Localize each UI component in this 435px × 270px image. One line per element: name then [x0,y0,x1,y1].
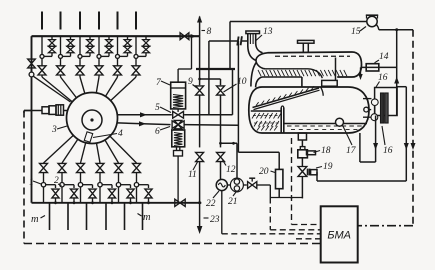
svg-text:5: 5 [155,103,160,113]
svg-text:1: 1 [29,178,34,188]
svg-text:15: 15 [351,27,361,37]
svg-text:4: 4 [118,129,123,139]
svg-text:16: 16 [383,146,393,156]
svg-text:9: 9 [188,77,193,87]
svg-text:21: 21 [228,197,238,207]
svg-text:23: 23 [210,215,220,225]
svg-text:20: 20 [259,167,269,177]
svg-text:БМА: БМА [327,230,351,242]
svg-text:8: 8 [207,27,212,37]
svg-text:11: 11 [188,170,197,180]
svg-text:18: 18 [321,146,331,156]
svg-text:m: m [31,214,39,225]
svg-text:14: 14 [379,52,389,62]
svg-text:17: 17 [346,146,357,156]
svg-text:3: 3 [51,125,57,135]
svg-text:m: m [143,212,151,223]
svg-text:6: 6 [155,127,160,137]
svg-text:13: 13 [263,27,273,37]
svg-text:22: 22 [206,199,216,209]
svg-text:19: 19 [323,162,333,172]
svg-text:12: 12 [226,165,236,175]
